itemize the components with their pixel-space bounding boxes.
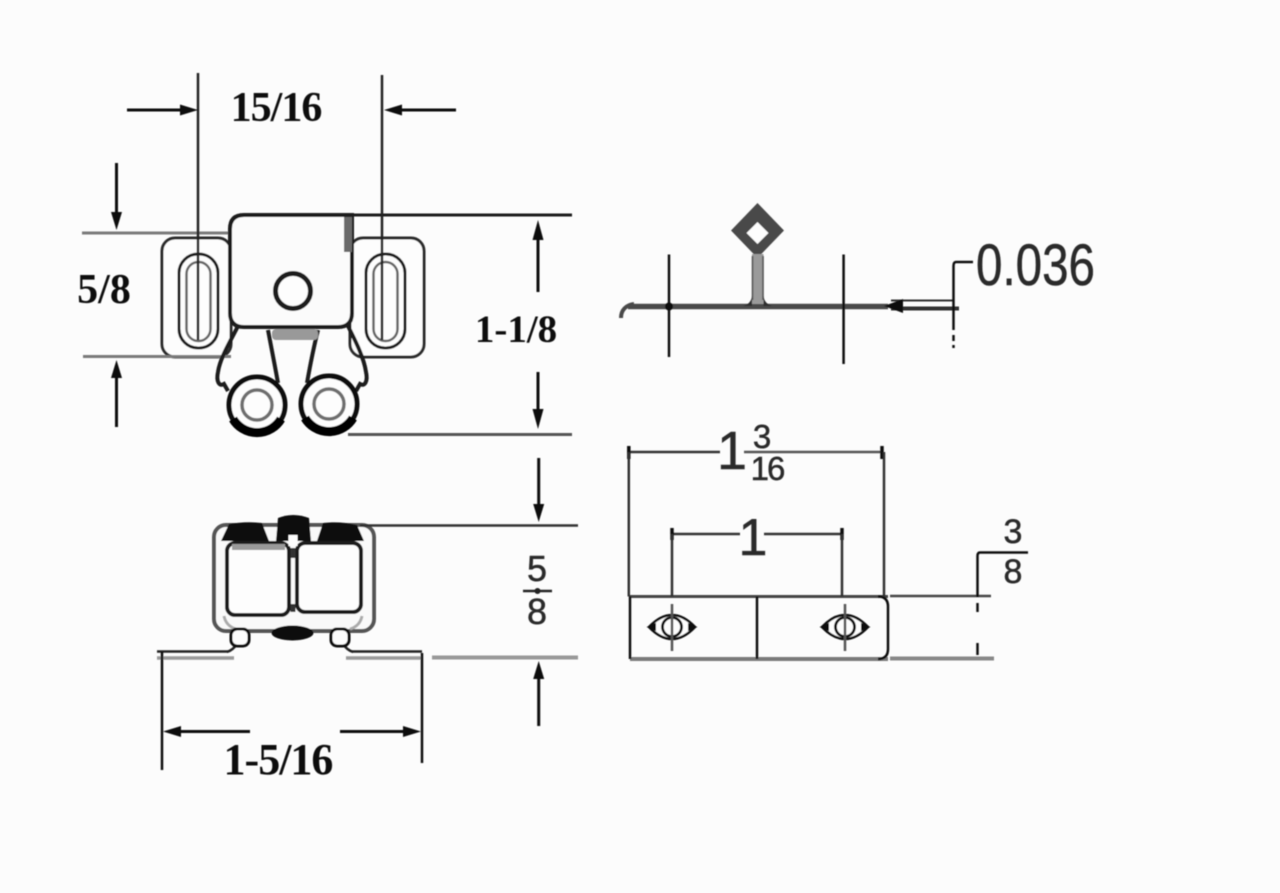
svg-text:1: 1 [739, 509, 768, 567]
svg-text:5/8: 5/8 [77, 267, 131, 313]
svg-text:16: 16 [751, 450, 784, 487]
svg-text:8: 8 [1004, 553, 1023, 591]
svg-text:8: 8 [527, 591, 547, 632]
svg-text:1-5/16: 1-5/16 [224, 735, 333, 784]
svg-text:3: 3 [1004, 513, 1023, 551]
svg-text:0.036: 0.036 [976, 234, 1095, 299]
svg-text:5: 5 [527, 548, 547, 589]
svg-text:15/16: 15/16 [231, 85, 322, 131]
svg-text:1: 1 [717, 421, 747, 481]
svg-text:1-1/8: 1-1/8 [475, 308, 557, 351]
